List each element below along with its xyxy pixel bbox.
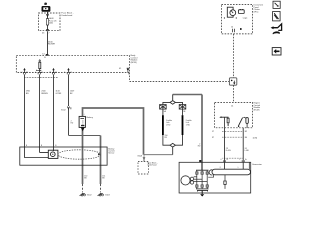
- svg-text:Sensor: Sensor: [108, 152, 114, 155]
- svg-text:1: 1: [239, 159, 240, 161]
- svg-text:BN/WH: BN/WH: [41, 93, 48, 95]
- svg-text:BK: BK: [102, 178, 105, 180]
- svg-text:RD/WH: RD/WH: [48, 44, 56, 46]
- svg-text:(IPC): (IPC): [254, 12, 259, 14]
- svg-text:Underhood: Underhood: [61, 14, 73, 17]
- svg-text:L: L: [238, 167, 239, 169]
- svg-text:4: 4: [35, 72, 36, 74]
- svg-text:Battery: Battery: [87, 116, 93, 119]
- svg-text:5B: 5B: [183, 111, 186, 113]
- svg-text:G102: G102: [87, 195, 92, 197]
- svg-text:14: 14: [231, 106, 234, 108]
- svg-text:(ECM): (ECM): [254, 110, 260, 112]
- svg-text:RD: RD: [198, 146, 201, 148]
- svg-text:L-BU: L-BU: [245, 150, 250, 152]
- svg-text:D-GN: D-GN: [226, 150, 231, 152]
- svg-text:G103: G103: [105, 195, 110, 197]
- svg-text:B0: B0: [245, 137, 247, 139]
- svg-text:B: B: [26, 145, 28, 147]
- svg-text:BK: BK: [70, 93, 73, 95]
- svg-text:F: F: [220, 167, 221, 169]
- svg-text:B: B: [55, 145, 57, 147]
- svg-text:41: 41: [119, 68, 122, 70]
- svg-text:BN: BN: [26, 93, 29, 95]
- svg-text:10: 10: [45, 3, 47, 5]
- svg-text:2 RD: 2 RD: [166, 124, 171, 126]
- svg-text:RD: RD: [71, 123, 74, 125]
- svg-text:(BCM): (BCM): [131, 62, 137, 64]
- svg-text:X102: X102: [61, 110, 67, 112]
- svg-text:BK: BK: [84, 178, 87, 180]
- svg-text:B: B: [41, 145, 43, 147]
- svg-text:B: B: [44, 57, 46, 59]
- svg-text:X50A: X50A: [137, 155, 142, 158]
- svg-text:43: 43: [42, 33, 45, 35]
- svg-text:A3: A3: [26, 71, 28, 74]
- svg-text:B: B: [227, 159, 229, 161]
- svg-text:57: 57: [212, 131, 214, 133]
- svg-text:24: 24: [20, 72, 22, 74]
- svg-text:GY/BK: GY/BK: [56, 93, 63, 95]
- svg-text:14: 14: [231, 27, 234, 29]
- svg-text:21: 21: [49, 72, 51, 74]
- svg-text:10A: 10A: [49, 21, 53, 24]
- svg-text:RD: RD: [165, 137, 168, 139]
- svg-text:B8: B8: [41, 72, 43, 74]
- svg-text:E6: E6: [55, 72, 57, 74]
- svg-text:+: +: [84, 114, 86, 116]
- svg-text:F7: F7: [212, 137, 214, 139]
- svg-text:B2: B2: [245, 131, 247, 133]
- svg-text:7: 7: [64, 72, 65, 74]
- svg-text:7: 7: [48, 33, 50, 35]
- svg-text:(LIN): (LIN): [253, 138, 258, 140]
- svg-text:1 RD: 1 RD: [186, 124, 191, 126]
- svg-text:4: 4: [220, 159, 221, 161]
- svg-text:Generator: Generator: [252, 163, 262, 166]
- svg-text:A: A: [245, 158, 247, 161]
- svg-text:Logic: Logic: [243, 18, 248, 20]
- svg-text:D2: D2: [70, 72, 72, 74]
- svg-text:Underhood: Underhood: [148, 164, 157, 166]
- svg-text:5A: 5A: [164, 110, 167, 113]
